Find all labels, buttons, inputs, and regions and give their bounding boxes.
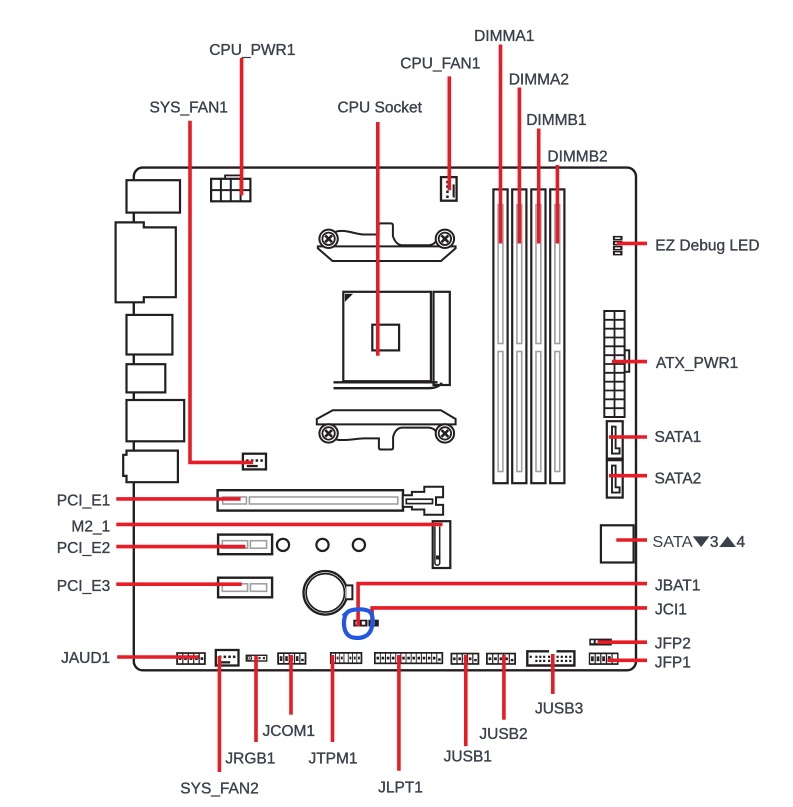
svg-text:SATA2: SATA2 bbox=[655, 471, 702, 488]
svg-text:M2_1: M2_1 bbox=[71, 518, 110, 535]
svg-text:JUSB3: JUSB3 bbox=[535, 701, 583, 718]
svg-text:CPU Socket: CPU Socket bbox=[337, 100, 422, 117]
svg-text:JFP1: JFP1 bbox=[655, 654, 691, 671]
rear IO port (LAN) bbox=[127, 400, 185, 441]
SYS_FAN2 connector bbox=[216, 650, 239, 666]
svg-text:JUSB1: JUSB1 bbox=[444, 749, 492, 766]
SATA1 leader bbox=[609, 435, 647, 439]
svg-text:ATX_PWR1: ATX_PWR1 bbox=[656, 355, 738, 372]
CPU bracket top bbox=[318, 246, 456, 261]
mounting hole 1 bbox=[277, 539, 289, 551]
svg-text:JFP2: JFP2 bbox=[655, 636, 691, 653]
JTPM1 header bbox=[330, 652, 362, 664]
JAUD1 header bbox=[176, 652, 206, 665]
svg-text:CPU_PWR1: CPU_PWR1 bbox=[209, 42, 295, 59]
PCI_E1 leader bbox=[116, 497, 240, 501]
svg-text:PCI_E3: PCI_E3 bbox=[57, 578, 110, 595]
screw bottom-left bbox=[319, 424, 337, 442]
M2_1 slot bbox=[433, 521, 451, 568]
JCI1 leader bbox=[372, 608, 647, 621]
screw top-left bbox=[319, 230, 337, 248]
svg-text:SYS_FAN1: SYS_FAN1 bbox=[149, 100, 227, 117]
JBAT1 jumper bbox=[353, 620, 367, 627]
JFP2 leader bbox=[598, 640, 648, 644]
DIMMB1 leader bbox=[537, 129, 541, 244]
JUSB2 header bbox=[486, 653, 516, 665]
JUSB2 leader bbox=[502, 655, 506, 720]
svg-text:JLPT1: JLPT1 bbox=[378, 780, 423, 797]
CPU_PWR1 connector (8-pin) bbox=[225, 175, 241, 179]
JRGB1 leader bbox=[254, 656, 258, 742]
JUSB1 header bbox=[451, 653, 480, 665]
screw top-right bbox=[436, 230, 454, 248]
PCI_E2 leader bbox=[116, 545, 245, 549]
SATA1 connector bbox=[607, 421, 623, 458]
JRGB1 header bbox=[246, 655, 268, 662]
SATA3/4 leader bbox=[616, 538, 647, 542]
rear IO port (PS/2+USB) bbox=[127, 180, 181, 212]
svg-text:4: 4 bbox=[737, 534, 746, 551]
socket lever handle bbox=[334, 381, 438, 383]
JUSB3 leader bbox=[551, 654, 555, 694]
svg-text:JTPM1: JTPM1 bbox=[308, 751, 357, 768]
svg-text:PCI_E2: PCI_E2 bbox=[57, 540, 110, 557]
SYS_FAN2 leader bbox=[218, 656, 222, 772]
JCI1 header bbox=[368, 620, 378, 627]
JCOM1 header bbox=[277, 652, 306, 664]
ATX_PWR1 leader bbox=[612, 360, 647, 364]
PCI_E1 latch bbox=[403, 487, 443, 515]
socket lever housing bbox=[434, 292, 450, 385]
svg-text:DIMMB1: DIMMB1 bbox=[526, 112, 586, 129]
rear IO port (USB) bbox=[127, 315, 173, 355]
PCI_E3 leader bbox=[116, 582, 241, 586]
SATA2 leader bbox=[609, 474, 647, 478]
rear IO port (VGA) bbox=[116, 222, 176, 302]
SYS_FAN1 connector bbox=[243, 454, 266, 470]
svg-text:DIMMA1: DIMMA1 bbox=[474, 28, 534, 45]
svg-text:JBAT1: JBAT1 bbox=[655, 578, 700, 595]
SYS_FAN1 leader bbox=[190, 121, 253, 463]
JLPT1 header bbox=[374, 652, 443, 664]
DIMMB2 leader bbox=[556, 165, 560, 244]
CMOS battery bbox=[304, 571, 348, 615]
motherboard outline bbox=[134, 168, 636, 671]
socket corner triangle bbox=[346, 294, 352, 300]
CPU bracket bottom bbox=[317, 410, 456, 424]
DIMMA1 slot bbox=[493, 189, 507, 483]
svg-text:JAUD1: JAUD1 bbox=[61, 650, 110, 667]
M2_1 leader bbox=[116, 523, 442, 527]
svg-text:JCOM1: JCOM1 bbox=[263, 723, 316, 740]
SATA3/4 connector bbox=[601, 525, 634, 562]
svg-text:DIMMB2: DIMMB2 bbox=[547, 149, 607, 166]
JFP2 header bbox=[589, 639, 612, 646]
CPU Socket leader bbox=[376, 122, 380, 356]
svg-text:SATA: SATA bbox=[652, 534, 693, 551]
CPU socket body bbox=[343, 292, 431, 381]
svg-text:JUSB2: JUSB2 bbox=[479, 726, 527, 743]
svg-text:JCI1: JCI1 bbox=[655, 602, 687, 619]
mounting hole 2 bbox=[316, 539, 328, 551]
CPU_PWR1 leader bbox=[240, 58, 244, 195]
JUSB3 header bbox=[527, 651, 574, 665]
JBAT1 leader bbox=[358, 584, 647, 627]
DIMMB1 slot bbox=[531, 189, 545, 483]
DIMMA2 leader bbox=[518, 88, 522, 244]
svg-text:PCI_E1: PCI_E1 bbox=[57, 492, 110, 509]
EZ Debug LED leader bbox=[617, 242, 647, 246]
DIMMB2 slot bbox=[550, 189, 564, 483]
JFP1 leader bbox=[608, 658, 648, 662]
svg-text:CPU_FAN1: CPU_FAN1 bbox=[400, 55, 480, 72]
DIMMA1 leader bbox=[499, 45, 503, 244]
svg-text:EZ Debug LED: EZ Debug LED bbox=[655, 237, 759, 254]
JBAT1 blue highlight circle bbox=[343, 609, 373, 638]
PCI_E1 slot bbox=[218, 490, 403, 510]
JLPT1 leader bbox=[397, 655, 401, 771]
DIMMA2 slot bbox=[512, 189, 526, 483]
svg-text:SYS_FAN2: SYS_FAN2 bbox=[180, 781, 258, 798]
screw bottom-right bbox=[436, 424, 454, 442]
CPU_FAN1 connector bbox=[441, 177, 457, 201]
ATX_PWR1 connector (24-pin) bbox=[625, 350, 630, 372]
JCOM1 leader bbox=[289, 655, 293, 715]
JAUD1 leader bbox=[117, 655, 198, 659]
SATA2 connector bbox=[607, 460, 623, 497]
rear IO port (USB small) bbox=[127, 364, 166, 392]
PCI_E3 slot bbox=[218, 578, 272, 598]
mounting hole 3 bbox=[353, 539, 365, 551]
svg-text:JRGB1: JRGB1 bbox=[225, 751, 275, 768]
svg-text:3: 3 bbox=[710, 534, 719, 551]
JUSB1 leader bbox=[464, 655, 468, 746]
svg-text:DIMMA2: DIMMA2 bbox=[509, 71, 569, 88]
JTPM1 leader bbox=[331, 655, 335, 742]
EZ Debug LED bbox=[613, 236, 623, 241]
CPU_FAN1 leader bbox=[447, 76, 451, 190]
svg-text:SATA1: SATA1 bbox=[655, 429, 702, 446]
rear IO port (audio) bbox=[123, 451, 178, 483]
PCI_E2 slot bbox=[218, 535, 272, 555]
JFP1 header bbox=[589, 653, 619, 665]
socket center square bbox=[372, 325, 399, 351]
